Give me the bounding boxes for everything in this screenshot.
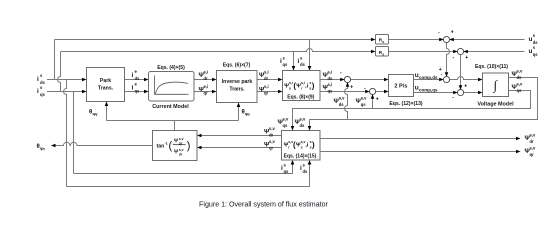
svg-text:Trans.: Trans.	[98, 86, 114, 92]
wire E bottom feedback from ds dist line (hops)	[345, 83, 348, 120]
wire i_ds drop to psi_s block	[309, 40, 311, 67]
wire park outputs	[125, 79, 146, 81]
wire branch B i_qs from top bus down (hop over i_ds line)	[58, 52, 61, 92]
wire theta output left (hops over C and D)	[55, 142, 153, 145]
wire bottom bus i_ds	[67, 164, 310, 187]
svg-text:Voltage Model: Voltage Model	[477, 102, 514, 108]
summing junction B (u_qs - Rs i_qs)	[457, 48, 463, 54]
svg-text:+: +	[350, 85, 353, 91]
block Voltage Model integrator (Eqs 10-11)	[483, 73, 509, 97]
fraction bar in arctan	[173, 144, 186, 146]
wire theta to inverse park bottom	[238, 107, 240, 121]
wire branch C i_ds down (hop over i_qs line)	[64, 80, 67, 187]
block psi_s stator flux (Eqs 8-9)	[283, 71, 321, 101]
svg-text:tan: tan	[157, 144, 165, 150]
wire arctan output up to theta bus	[174, 121, 176, 131]
wire top bus i_ds	[55, 39, 373, 41]
block Park Trans	[87, 68, 125, 102]
svg-text:+: +	[464, 84, 467, 90]
svg-text:Eqs. (14)×(15): Eqs. (14)×(15)	[284, 154, 317, 160]
wire top bus i_qs (hop over i_ds drop)	[61, 49, 373, 52]
block Rs2	[376, 47, 389, 57]
svg-text:Eqs. (12)×(13): Eqs. (12)×(13)	[389, 101, 423, 107]
svg-text:Figure 1: Overall system of fl: Figure 1: Overall system of flux estimat…	[199, 201, 329, 209]
block arctan	[153, 131, 198, 161]
svg-text:Eqs. (10)×(11): Eqs. (10)×(11)	[475, 64, 508, 70]
wire u_comp_ds to junction C	[414, 79, 441, 81]
svg-text:(: (	[169, 140, 173, 152]
wire junction C output to VM (hop over B-D vertical)	[449, 77, 479, 80]
svg-text:): )	[187, 140, 191, 152]
wire junction F to 2PI block	[375, 91, 385, 93]
wire bottom bus i_qs	[74, 165, 293, 174]
wire inverse park outputs	[257, 79, 279, 81]
block Current Model outer	[149, 72, 195, 102]
svg-text:-1: -1	[165, 142, 168, 146]
wire current model outputs	[194, 79, 213, 81]
wire F bottom feedback from qs dist line	[372, 95, 374, 109]
wire psi_s q output to junction F	[320, 91, 367, 93]
wire theta bus	[107, 120, 239, 122]
wire psi_r left outputs to arctan	[201, 135, 282, 137]
wire junction E to 2PI block	[350, 79, 385, 81]
block Inverse Park Trans	[217, 71, 258, 103]
svg-text:Park: Park	[100, 78, 111, 84]
svg-text:Eqs. (6)×(7): Eqs. (6)×(7)	[223, 63, 251, 69]
svg-text:+: +	[376, 97, 379, 103]
wire VM qs output feedback loop	[293, 91, 531, 128]
wire branch D i_qs down	[73, 92, 75, 174]
svg-text:Ψs,vdr: Ψs,vdr	[174, 148, 184, 157]
wire i_ds input line	[47, 79, 83, 81]
wire i_qs drop to psi_s block	[293, 52, 295, 67]
svg-text:+: +	[465, 55, 468, 61]
wire junction B down to D	[460, 54, 462, 86]
svg-text:Inverse park: Inverse park	[222, 79, 253, 85]
summing junction E (psi_ds error)	[344, 76, 350, 82]
wire junction D output to VM	[463, 92, 479, 94]
svg-text:2 P/s: 2 P/s	[394, 84, 407, 90]
summing junction A (u_ds - Rs i_ds)	[443, 36, 449, 42]
wire psi_r right outputs	[320, 138, 517, 140]
svg-text:+: +	[451, 30, 454, 36]
svg-text:Ψs,vqr: Ψs,vqr	[174, 137, 184, 146]
wire theta to park bottom	[106, 106, 108, 121]
svg-text:Current Model: Current Model	[152, 104, 189, 110]
wire Rs2 output to junction B	[389, 51, 454, 53]
wire VM ds output feedback loop	[310, 78, 538, 128]
wire Rs1 output to junction A	[389, 39, 441, 41]
wire u_comp_qs to junction D	[414, 92, 455, 94]
block 2 PI compensator (Eqs 12-13)	[389, 75, 414, 97]
wire u_ds input from right	[450, 39, 525, 41]
svg-text:Eqs. (4)×(5): Eqs. (4)×(5)	[157, 65, 185, 71]
summing junction C (+u_comp_ds)	[443, 76, 449, 82]
svg-text:Eqs. (8)×(9): Eqs. (8)×(9)	[287, 95, 314, 101]
wire i_qs input line	[47, 91, 83, 93]
wire psi_s d output to junction E	[320, 79, 342, 81]
arrowheads	[51, 38, 521, 165]
wire junction A down to C (hop over qs line)	[447, 42, 450, 73]
wire u_qs input from right	[464, 51, 525, 53]
block psi_r rotor flux (Eqs 14-15)	[282, 131, 321, 161]
wire branch A i_ds up to top bus	[54, 40, 56, 80]
summing junction F (psi_qs error)	[369, 88, 375, 94]
current model axes and saturation curve	[155, 76, 189, 95]
block Rs1	[376, 35, 389, 45]
svg-text:Trans.: Trans.	[229, 87, 245, 93]
summing junction D (+u_comp_qs)	[457, 89, 463, 95]
